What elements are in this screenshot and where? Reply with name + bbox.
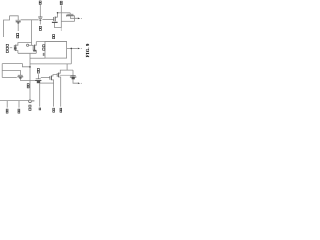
svg-text:FIG. 9: FIG. 9	[85, 43, 90, 57]
wire	[55, 13, 57, 17]
wire	[35, 42, 36, 46]
wire node A	[31, 20, 33, 46]
wire	[61, 20, 74, 22]
wire	[35, 51, 36, 54]
arrow dash at bias terminal	[32, 100, 35, 103]
wire node B	[29, 53, 31, 99]
wire	[52, 75, 57, 76]
transistor Q5	[33, 45, 37, 52]
wire	[42, 19, 53, 21]
wire	[40, 82, 54, 84]
wire	[55, 23, 62, 28]
transistor Q7	[17, 75, 23, 79]
wire	[2, 70, 20, 75]
wire	[18, 101, 20, 108]
wire	[16, 51, 18, 54]
wire	[2, 64, 30, 67]
junction dot OUT	[71, 48, 73, 50]
wire	[60, 74, 70, 76]
label 52	[53, 35, 55, 37]
wire	[6, 101, 8, 108]
wire	[16, 43, 31, 46]
tick	[81, 82, 82, 85]
wire	[73, 78, 78, 84]
transistor Q11	[70, 75, 76, 79]
transistor Q3	[52, 17, 58, 23]
arrow OUT3	[78, 82, 80, 84]
wire	[21, 19, 39, 21]
amplifier block U1	[45, 42, 67, 59]
wire	[39, 21, 41, 25]
wire	[60, 28, 62, 31]
tick	[81, 47, 82, 50]
transistor Q10	[57, 73, 59, 78]
label 45	[29, 105, 31, 107]
arrow OUT2	[78, 48, 80, 50]
label 24	[39, 1, 41, 2]
label 40	[37, 69, 39, 71]
transistor Q2	[38, 17, 42, 21]
wire OUT	[67, 47, 78, 49]
wire	[39, 5, 41, 17]
wire	[18, 52, 36, 54]
wire	[66, 64, 68, 70]
wire	[73, 16, 76, 21]
wire	[10, 47, 12, 49]
wire	[36, 41, 66, 43]
wire	[70, 16, 77, 18]
wire	[69, 13, 71, 14]
wire	[58, 12, 71, 14]
terminal circle IN	[27, 44, 29, 46]
label 47	[18, 109, 20, 111]
tick	[81, 17, 82, 20]
wire	[2, 77, 17, 79]
wire	[30, 57, 45, 59]
transistor Q6	[14, 45, 17, 51]
wire	[59, 77, 61, 107]
wire	[59, 70, 73, 73]
transistor Q9	[50, 76, 52, 81]
wire	[4, 16, 10, 37]
wire	[65, 15, 67, 17]
wire	[17, 22, 19, 31]
wire	[60, 6, 62, 29]
wire	[37, 74, 39, 78]
label 48	[39, 108, 41, 110]
wire	[20, 77, 35, 80]
transistor Q4	[67, 14, 74, 16]
wire	[72, 70, 74, 77]
transistor Q8	[35, 79, 41, 84]
wire	[39, 83, 41, 107]
label 23	[39, 26, 41, 28]
wire	[1, 64, 3, 78]
label 49	[53, 108, 55, 110]
junction dot	[57, 12, 59, 14]
wire	[29, 44, 33, 46]
label 46	[6, 109, 8, 111]
label 35	[43, 45, 45, 47]
arrow OUT1	[78, 18, 80, 20]
wire	[10, 16, 19, 20]
label 25	[17, 33, 19, 35]
transistor Q1	[16, 20, 21, 24]
wire	[70, 48, 72, 64]
label 50	[60, 108, 62, 110]
wire	[0, 100, 29, 102]
label 102	[6, 44, 8, 46]
terminal circle bias	[29, 100, 32, 103]
wire	[52, 80, 54, 107]
wire	[41, 77, 50, 79]
label 22	[60, 1, 62, 3]
label 41	[27, 84, 29, 86]
wire	[30, 63, 71, 65]
junction dot	[29, 66, 31, 68]
